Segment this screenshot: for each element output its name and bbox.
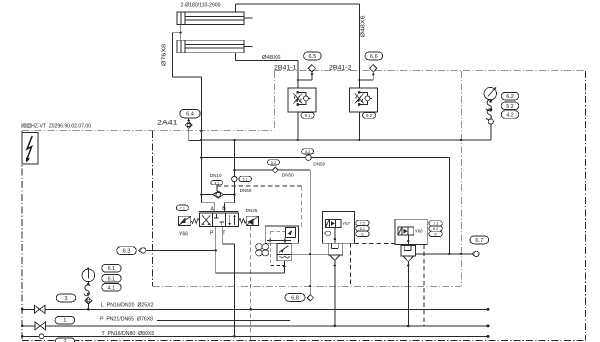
svg-text:Ø48X6: Ø48X6 xyxy=(361,15,367,37)
svg-text:3: 3 xyxy=(65,296,68,302)
svg-text:DN10: DN10 xyxy=(210,173,222,178)
svg-text:Ø48X6: Ø48X6 xyxy=(262,55,281,61)
svg-text:2-Ø180/110-2900: 2-Ø180/110-2900 xyxy=(181,3,221,9)
svg-text:DN50: DN50 xyxy=(282,173,294,178)
svg-text:5: 5 xyxy=(361,233,363,237)
svg-text:6: 6 xyxy=(435,233,437,237)
svg-text:T PN16/DN80 Ø89X5: T PN16/DN80 Ø89X5 xyxy=(102,331,155,337)
svg-text:5.1: 5.1 xyxy=(243,178,248,182)
svg-text:2B41-2: 2B41-2 xyxy=(329,65,352,72)
svg-text:5.1: 5.1 xyxy=(108,276,116,282)
svg-text:6.7: 6.7 xyxy=(475,238,483,244)
svg-text:6.2: 6.2 xyxy=(506,94,514,100)
svg-text:6.3: 6.3 xyxy=(123,249,131,255)
svg-text:9.1: 9.1 xyxy=(305,113,311,118)
svg-text:B: B xyxy=(222,206,226,212)
svg-text:4.1: 4.1 xyxy=(214,181,219,185)
svg-text:L PN16/DN20 Ø25X2: L PN16/DN20 Ø25X2 xyxy=(101,303,154,309)
svg-text:6.1: 6.1 xyxy=(108,266,116,272)
svg-text:6.8: 6.8 xyxy=(291,296,299,302)
svg-text:2B41-1: 2B41-1 xyxy=(274,65,297,72)
svg-text:1: 1 xyxy=(63,318,66,324)
svg-text:4.2: 4.2 xyxy=(506,113,514,119)
svg-text:6.2: 6.2 xyxy=(433,227,438,231)
svg-text:7.3: 7.3 xyxy=(433,222,438,226)
svg-text:Y67: Y67 xyxy=(342,221,350,226)
svg-text:6.1: 6.1 xyxy=(360,227,365,231)
svg-text:6.5: 6.5 xyxy=(309,54,317,60)
svg-text:阀组HZ-VT Z0296.90.02.07.00: 阀组HZ-VT Z0296.90.02.07.00 xyxy=(21,122,91,130)
svg-text:Y66: Y66 xyxy=(179,231,188,237)
svg-text:7.1: 7.1 xyxy=(180,207,185,211)
svg-text:P: P xyxy=(210,231,214,237)
svg-text:4.1: 4.1 xyxy=(108,285,116,291)
svg-text:2A41: 2A41 xyxy=(157,119,178,126)
svg-text:DN50: DN50 xyxy=(240,188,252,193)
svg-text:5.2: 5.2 xyxy=(506,104,514,110)
svg-text:7.2: 7.2 xyxy=(360,222,365,226)
svg-text:6.4: 6.4 xyxy=(186,112,194,118)
svg-text:Ø76X8: Ø76X8 xyxy=(162,44,168,66)
svg-text:DN50: DN50 xyxy=(313,161,325,166)
svg-text:DN25: DN25 xyxy=(246,208,258,213)
svg-text:5.3: 5.3 xyxy=(305,150,310,154)
svg-text:P PN21/DN65 Ø76X8: P PN21/DN65 Ø76X8 xyxy=(100,316,153,322)
svg-text:A: A xyxy=(210,207,214,213)
svg-text:9.2: 9.2 xyxy=(366,113,372,118)
svg-text:6.6: 6.6 xyxy=(370,54,378,60)
svg-text:Y68: Y68 xyxy=(415,229,423,234)
svg-text:5.2: 5.2 xyxy=(271,161,276,165)
